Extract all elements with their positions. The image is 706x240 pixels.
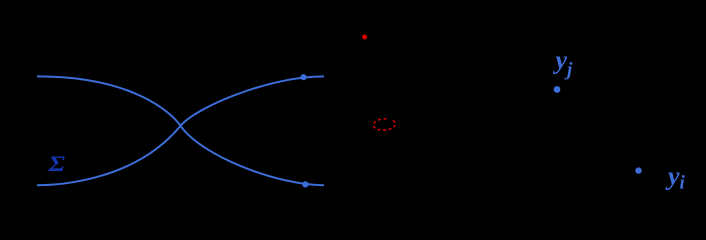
wire: blue crossing curve 1 (top-left to bottom-right) — [37, 76, 324, 185]
node: particle y_j dot — [554, 86, 561, 93]
node: endpoint dot on curve 2 (top right) — [300, 74, 306, 80]
wire: blue crossing curve 2 (bottom-left to top-right) — [37, 76, 324, 185]
node: particle y_i dot — [635, 167, 641, 173]
svg-text:Σ: Σ — [47, 151, 65, 176]
red dashed exchange ellipse — [373, 118, 396, 131]
node: endpoint dot on curve 1 (bottom right) — [302, 181, 308, 187]
node: red marker dot — [362, 35, 367, 40]
